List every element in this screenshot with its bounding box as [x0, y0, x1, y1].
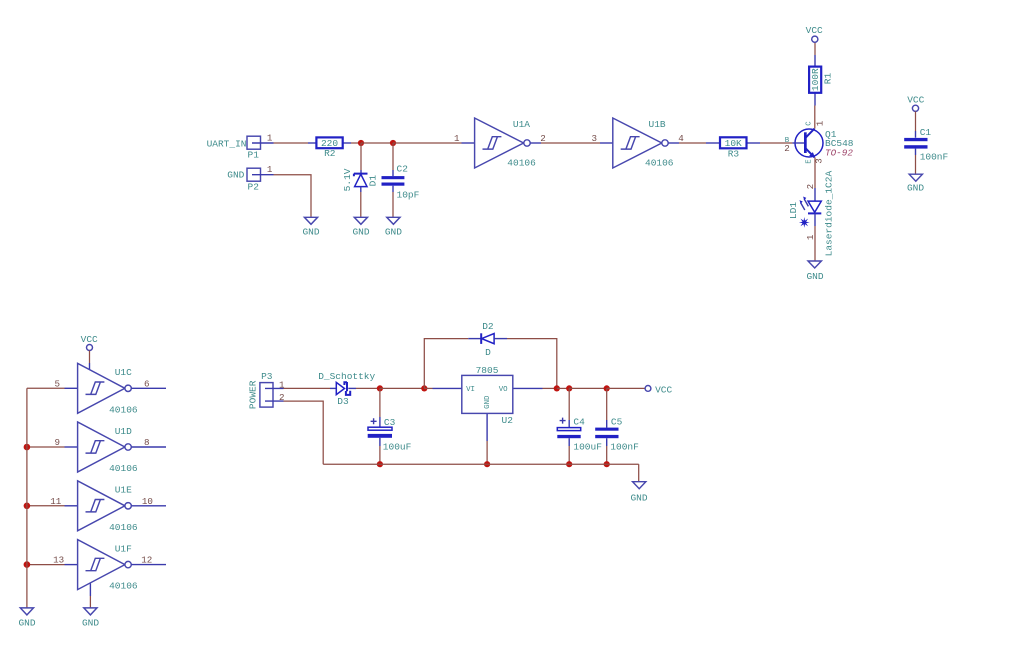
- ground below P2: [302, 217, 319, 237]
- power VCC above C1: [907, 94, 924, 111]
- wire U2 VO to node: [543, 387, 557, 389]
- wire D2 branch right: [507, 339, 557, 389]
- svg-text:1: 1: [454, 133, 460, 144]
- svg-text:1: 1: [267, 133, 273, 144]
- svg-text:U2: U2: [502, 415, 514, 426]
- diode D1 zener 5.1V: [342, 168, 379, 192]
- svg-text:C5: C5: [611, 416, 623, 427]
- node junction C5 bottom: [604, 461, 610, 467]
- svg-text:Laserdiode_1C2A: Laserdiode_1C2A: [823, 171, 834, 257]
- ground below U1F: [82, 608, 99, 628]
- capacitor C1 100nF: [904, 127, 948, 162]
- svg-text:100R: 100R: [810, 68, 821, 91]
- svg-text:40106: 40106: [109, 522, 138, 533]
- svg-text:C4: C4: [573, 416, 585, 427]
- op-amp U1E inverter 40106: [65, 481, 167, 533]
- svg-text:2: 2: [784, 143, 790, 154]
- node junction U1F: [24, 561, 31, 568]
- svg-text:1: 1: [267, 164, 273, 175]
- wire Q1 emitter to LD1: [814, 157, 816, 188]
- svg-text:2: 2: [540, 133, 546, 144]
- capacitor C4 100uF: [557, 416, 602, 452]
- capacitor C5 100nF: [595, 416, 639, 452]
- svg-text:VCC: VCC: [806, 25, 823, 36]
- wire node to C4: [568, 388, 570, 420]
- svg-text:40106: 40106: [109, 463, 138, 474]
- svg-text:12: 12: [141, 555, 152, 566]
- svg-text:P2: P2: [248, 181, 260, 192]
- svg-text:VCC: VCC: [907, 94, 924, 105]
- svg-text:10pF: 10pF: [397, 190, 420, 201]
- wire C2 to GND: [392, 192, 394, 217]
- wire rail to U1C: [27, 387, 65, 389]
- svg-text:D_Schottky: D_Schottky: [318, 371, 375, 382]
- svg-text:4: 4: [678, 133, 684, 144]
- wire node to C4 node: [557, 387, 569, 389]
- node junction D2 left: [421, 385, 427, 391]
- ground power section: [630, 482, 647, 504]
- svg-text:R1: R1: [823, 73, 834, 85]
- svg-text:1: 1: [814, 120, 825, 126]
- wire U1F to GND: [89, 596, 91, 608]
- svg-text:6: 6: [144, 378, 150, 389]
- wire node to node D2: [380, 387, 424, 389]
- wire node to C5 node: [569, 387, 607, 389]
- svg-text:VCC: VCC: [81, 334, 98, 345]
- resistor R3: [706, 137, 760, 159]
- svg-text:100nF: 100nF: [610, 442, 639, 453]
- svg-text:UART_IN: UART_IN: [207, 138, 247, 149]
- svg-text:GND: GND: [18, 617, 35, 628]
- diode D2: [468, 321, 507, 358]
- wire node to U1A input: [393, 142, 462, 144]
- wire node to D1: [360, 143, 362, 170]
- resistor R1: [809, 55, 833, 106]
- svg-text:C1: C1: [920, 127, 932, 138]
- wire P3 pin1 to D3: [284, 387, 331, 389]
- svg-text:P3: P3: [261, 371, 273, 382]
- svg-text:40106: 40106: [507, 157, 536, 168]
- wire VCC to C1: [915, 111, 917, 131]
- ground below C2: [385, 217, 402, 237]
- node junction D1: [358, 140, 364, 146]
- svg-text:C3: C3: [384, 417, 396, 428]
- wire D1 to GND: [360, 192, 362, 217]
- wire VCC to U1C: [89, 351, 91, 364]
- node junction C5 top: [604, 385, 610, 391]
- svg-text:GND: GND: [385, 227, 402, 238]
- svg-text:100nF: 100nF: [920, 151, 949, 162]
- svg-text:D: D: [485, 347, 491, 358]
- svg-text:GND: GND: [907, 182, 924, 193]
- svg-text:R3: R3: [728, 148, 740, 159]
- svg-text:8: 8: [144, 437, 150, 448]
- wire rail to U1F: [27, 564, 65, 566]
- svg-text:7805: 7805: [476, 365, 499, 376]
- wire rail to U1D: [27, 446, 65, 448]
- wire P2 to GND: [274, 175, 312, 217]
- capacitor C2 10pF: [382, 164, 420, 201]
- svg-text:TO-92: TO-92: [825, 147, 853, 158]
- ground below D1: [352, 217, 369, 237]
- wire P1 to R2: [274, 142, 309, 144]
- svg-text:VO: VO: [499, 386, 508, 394]
- resistor R2: [308, 137, 351, 159]
- node junction C4 bottom: [566, 461, 572, 467]
- wire C3 to rail: [379, 446, 381, 464]
- svg-text:GND: GND: [806, 271, 823, 282]
- connector P1: [207, 136, 274, 160]
- svg-text:D2: D2: [482, 321, 494, 332]
- node junction C2: [390, 140, 396, 146]
- svg-text:R2: R2: [324, 148, 336, 159]
- svg-text:U1E: U1E: [115, 485, 132, 496]
- svg-text:5.1V: 5.1V: [342, 168, 353, 191]
- op-amp U1B inverter 40106: [600, 118, 679, 168]
- pin GND of U1F: [89, 584, 91, 597]
- svg-text:GND: GND: [227, 170, 244, 181]
- wire node to C5: [606, 388, 608, 420]
- wire R1 to VCC: [814, 42, 816, 55]
- regulator U2 7805: [433, 365, 543, 441]
- op-amp U1D inverter 40106: [65, 422, 167, 474]
- wire R3 to Q1 base: [760, 142, 792, 144]
- wire C5 to rail: [606, 446, 608, 464]
- wire LD1 to GND: [814, 226, 816, 261]
- svg-text:100uF: 100uF: [573, 442, 602, 453]
- svg-text:10: 10: [142, 496, 153, 507]
- svg-text:C: C: [806, 121, 814, 126]
- svg-text:U1A: U1A: [513, 119, 530, 130]
- connector P3 POWER: [248, 371, 284, 409]
- op-amp U1F inverter 40106: [65, 540, 167, 592]
- pin VCC of U1C: [89, 363, 91, 370]
- svg-text:U1B: U1B: [649, 119, 666, 130]
- svg-text:LD1: LD1: [788, 202, 799, 219]
- wire rail to U1E: [27, 505, 65, 507]
- laser diode LD1 Laserdiode_1C2A: [788, 171, 835, 257]
- node junction U1D: [24, 444, 31, 451]
- wire D3 to node: [356, 387, 380, 389]
- svg-text:D3: D3: [337, 396, 349, 407]
- svg-text:VCC: VCC: [655, 385, 672, 396]
- power VCC output: [645, 385, 672, 396]
- svg-text:GND: GND: [630, 493, 647, 504]
- wire Q1 collector to R1: [814, 106, 816, 129]
- ground below LD1: [806, 261, 823, 282]
- svg-text:40106: 40106: [109, 404, 138, 415]
- wire U1A to U1B: [541, 142, 600, 144]
- wire P3 pin2 to rail: [284, 401, 324, 464]
- diode D3 D_Schottky: [318, 371, 375, 407]
- wire node to node: [361, 142, 393, 144]
- wire C4 to rail: [568, 446, 570, 464]
- wire node to VCC output: [607, 387, 645, 389]
- wire ground rail: [323, 463, 639, 465]
- svg-text:U1D: U1D: [115, 426, 132, 437]
- connector P2: [227, 168, 273, 192]
- svg-text:GND: GND: [82, 617, 99, 628]
- svg-text:POWER: POWER: [248, 380, 259, 409]
- node junction U1E: [24, 503, 31, 510]
- svg-text:C2: C2: [397, 164, 409, 175]
- node junction C3 top: [377, 385, 383, 391]
- wire rail to GND: [638, 464, 640, 481]
- wire R2 to node: [351, 142, 361, 144]
- svg-text:U1C: U1C: [115, 367, 132, 378]
- op-amp U1A inverter 40106: [462, 118, 542, 168]
- svg-text:D1: D1: [368, 175, 379, 187]
- svg-text:U1F: U1F: [115, 543, 132, 554]
- wire node to U2 VI: [424, 387, 432, 389]
- wire C1 to GND: [915, 155, 917, 174]
- svg-text:40106: 40106: [645, 157, 674, 168]
- op-amp U1C inverter 40106: [65, 363, 167, 415]
- ground below C1: [907, 174, 924, 193]
- node junction D2 right: [554, 385, 560, 391]
- node junction C4 top: [566, 385, 572, 391]
- svg-text:GND: GND: [302, 227, 319, 238]
- svg-text:3: 3: [591, 133, 597, 144]
- wire D2 branch left: [424, 339, 468, 389]
- node junction C3 bottom: [377, 461, 383, 467]
- power VCC above R1: [806, 25, 823, 42]
- transistor Q1 BC548: [784, 120, 854, 164]
- wire node to C3: [379, 388, 381, 417]
- svg-text:100uF: 100uF: [383, 442, 412, 453]
- ground below left rail: [18, 608, 35, 628]
- svg-text:P1: P1: [248, 149, 260, 160]
- svg-text:GND: GND: [484, 395, 492, 409]
- capacitor C3 100uF: [368, 417, 412, 453]
- power VCC above U1C: [81, 334, 98, 351]
- wire U2 GND to rail: [486, 441, 488, 464]
- node junction U2 GND: [484, 461, 490, 467]
- wire left rail: [26, 388, 28, 608]
- wire U1B to R3: [679, 142, 706, 144]
- svg-text:40106: 40106: [109, 581, 138, 592]
- wire node to C2: [392, 143, 394, 170]
- svg-text:VI: VI: [466, 386, 475, 394]
- svg-text:GND: GND: [352, 227, 369, 238]
